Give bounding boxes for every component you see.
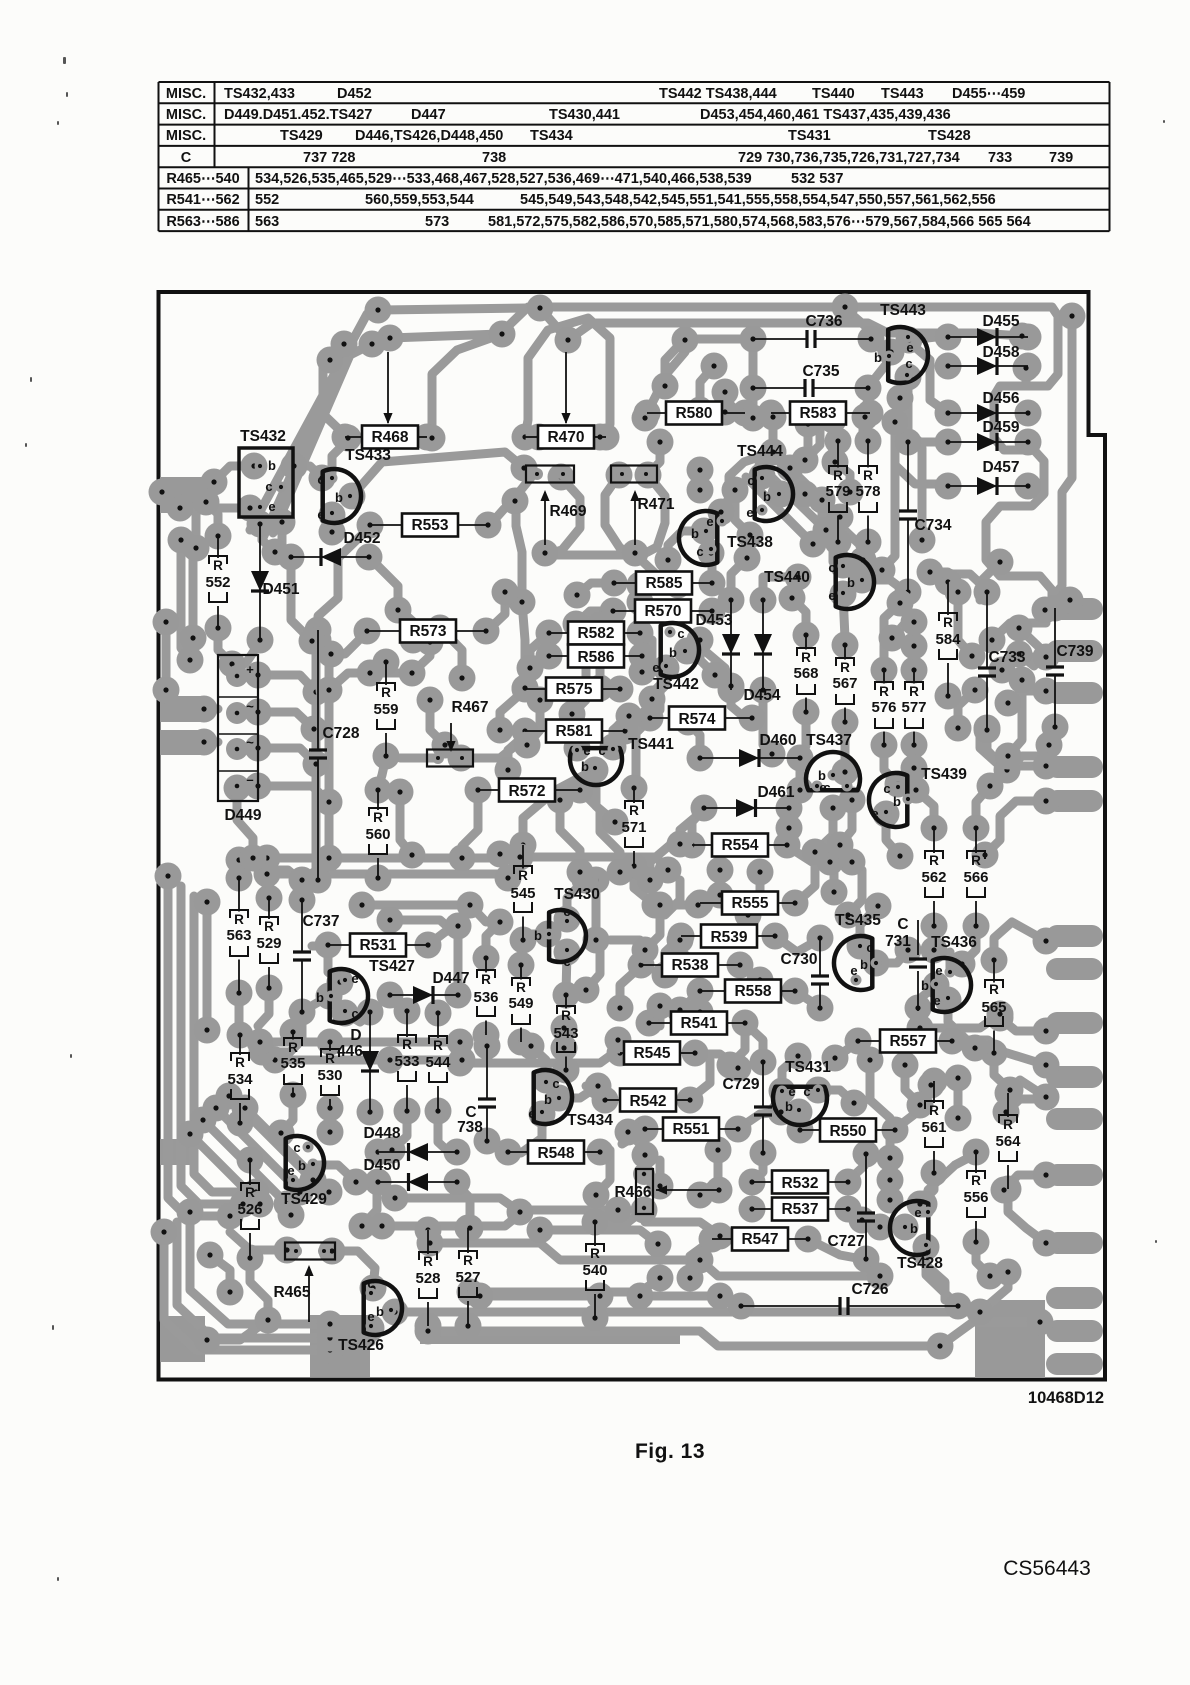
node pad [706,1177,733,1204]
svg-text:b: b [669,645,677,660]
wire [580,790,620,872]
node pad [1033,1162,1060,1189]
resistor R543 [553,995,578,1070]
wire [848,1157,866,1181]
wire [1049,727,1055,745]
svg-text:731: 731 [885,933,911,950]
node pad [995,1080,1022,1107]
node pad [962,1035,989,1062]
resistor R577 [901,670,926,745]
wire [362,1184,377,1226]
wire [687,651,731,686]
node pad [509,589,536,616]
node pad [632,937,659,964]
node pad [592,1087,619,1114]
wire [214,466,254,482]
resistor R537 [752,1198,848,1221]
svg-text:TS429: TS429 [281,1191,327,1208]
node pad [512,424,539,451]
node pad [563,611,590,638]
node pad [1013,355,1040,382]
svg-text:R: R [518,868,528,883]
node pad [180,625,207,652]
node pad [495,757,522,784]
node pad [327,969,354,996]
svg-text:D452: D452 [343,530,380,547]
node pad [601,570,628,597]
node pad [245,699,272,726]
svg-text:TS437: TS437 [806,732,852,749]
node pad [779,585,806,612]
node pad [675,709,702,736]
wire [656,690,665,710]
wire [880,1223,905,1232]
wire [325,660,334,858]
wire [808,1239,862,1259]
wire [795,1112,804,1128]
wire [378,308,526,310]
svg-text:549: 549 [508,995,533,1012]
wire [876,950,908,963]
node pad [977,773,1004,800]
node pad [776,795,803,822]
svg-text:R547: R547 [741,1231,778,1248]
node pad [224,775,251,802]
svg-text:b: b [335,490,343,505]
wire [785,810,794,828]
node pad [572,867,599,894]
svg-text:534,526,535,465,529⋯533,468,46: 534,526,535,465,529⋯533,468,467,528,527,… [255,171,752,187]
node pad [249,1039,276,1066]
node pad [167,495,194,522]
node pad [300,1167,327,1194]
node pad [707,1223,734,1250]
node pad [939,1028,966,1055]
node pad [487,909,514,936]
node pad [1033,928,1060,955]
node pad [274,1191,301,1218]
wire [695,1054,738,1068]
wire [258,712,314,729]
wire [237,788,253,858]
node pad [945,715,972,742]
resistor R545 [620,1042,695,1065]
node pad [652,962,679,989]
copper finger right 3 [1046,682,1103,704]
svg-text:e: e [850,963,857,978]
node pad [892,1052,919,1079]
svg-text:R: R [989,982,999,997]
node pad [331,331,358,358]
node pad [762,923,789,950]
svg-text:564: 564 [995,1133,1021,1150]
node pad [909,527,936,554]
diode D448 [363,1125,457,1161]
node pad [827,504,854,531]
node pad [301,716,328,743]
node pad [168,527,195,554]
node pad [1015,324,1042,351]
node pad [510,832,537,859]
node pad [194,1327,221,1354]
svg-text:R537: R537 [781,1201,818,1218]
node pad [1057,587,1084,614]
node pad [737,522,764,549]
node pad [278,1202,305,1229]
svg-text:R581: R581 [555,723,592,740]
wire [746,477,813,544]
node pad [1033,644,1060,671]
wire [398,610,413,640]
diode 446 [337,1012,379,1112]
wire [721,452,773,512]
wire [250,310,378,530]
node pad [365,777,392,804]
svg-text:e: e [871,806,878,821]
node pad [687,477,714,504]
wire [645,1222,720,1236]
node pad [867,1214,894,1241]
wire [572,620,586,714]
arrow into R468 [387,352,389,423]
wire [345,1013,368,1022]
wire [948,574,987,590]
resistor R586 [549,645,642,668]
wire [748,872,760,915]
node pad [835,902,862,929]
wire [275,1056,390,1065]
transistor TS430 [534,886,600,969]
node pad [750,1140,777,1167]
node pad [607,676,634,703]
svg-text:e: e [317,507,324,522]
wire [920,1175,934,1204]
wire [762,450,771,476]
wire [203,902,212,1030]
copper block left edge mid1 [160,696,204,722]
wire [892,596,908,638]
copper block left small [160,1139,192,1165]
wire [207,1320,268,1340]
capacitor C730 [780,938,829,1008]
node pad [616,703,643,730]
wire [162,622,171,690]
wire [904,377,913,442]
node pad [718,673,745,700]
node pad [1033,1230,1060,1257]
wire [870,1060,890,1158]
node pad [901,609,928,636]
wire [731,558,747,598]
wire [928,1155,974,1210]
node pad [921,937,948,964]
node pad [319,519,346,546]
node pad [677,1087,704,1114]
wire [650,845,692,880]
wire [843,594,845,638]
svg-text:~: ~ [246,699,254,714]
node pad [1033,1052,1060,1079]
node pad [444,1169,471,1196]
svg-text:MISC.: MISC. [166,128,206,144]
svg-text:c: c [866,940,873,955]
wire [873,343,886,352]
node pad [879,625,906,652]
node pad [632,1116,659,1143]
node pad [508,1029,535,1056]
node pad [895,429,922,456]
svg-text:R580: R580 [675,405,712,422]
node pad [1006,615,1033,642]
svg-text:577: 577 [901,699,926,716]
svg-text:b: b [763,489,771,504]
resistor R545 [510,845,535,940]
node pad [991,1177,1018,1204]
svg-text:R: R [971,1173,981,1188]
node pad [518,1033,545,1060]
svg-text:TS428: TS428 [897,1255,943,1272]
node pad [822,449,849,476]
node pad [962,677,989,704]
svg-text:738: 738 [482,150,506,166]
wire [930,926,939,950]
wire [987,730,1046,766]
resistor R558 [700,980,795,1003]
node pad [287,1179,314,1206]
wire [218,630,232,664]
node pad [682,1040,709,1067]
node pad [564,582,591,609]
wire [1004,1175,1046,1190]
node pad [512,676,539,703]
wire [613,716,629,747]
node pad [847,933,874,960]
svg-text:c: c [563,954,570,969]
node pad [278,544,305,571]
svg-text:R: R [373,810,383,825]
node pad [315,932,342,959]
node pad [153,609,180,636]
svg-text:D447: D447 [411,107,446,123]
svg-text:544: 544 [425,1054,451,1071]
node pad [911,1191,938,1218]
node pad [587,1283,614,1310]
svg-text:R: R [213,558,223,573]
node pad [382,1299,409,1326]
node pad [792,481,819,508]
diode D451 [251,524,300,640]
transistor TS426 [338,1276,402,1354]
node pad [687,457,714,484]
resistor R542 [605,1089,690,1112]
node pad [760,404,787,431]
svg-text:C: C [465,1104,476,1121]
svg-text:e: e [563,904,570,919]
wire [430,1243,880,1276]
node pad [995,743,1022,770]
svg-text:C739: C739 [1056,643,1093,660]
node pad [455,1313,482,1340]
node pad [247,1191,274,1218]
node pad [605,1027,632,1054]
resistor R555 [700,892,795,915]
node pad [728,1293,755,1320]
arrow into R470 [565,352,567,423]
node pad [853,1246,880,1273]
wire [332,440,348,476]
wire [527,700,540,745]
svg-text:b: b [268,458,276,473]
node pad [867,1263,894,1290]
wire [312,640,321,880]
wire [522,602,525,688]
wire [520,857,668,868]
wire [369,557,440,628]
node pad [945,1065,972,1092]
copper finger right 6 [1046,925,1103,947]
node pad [607,995,634,1022]
node pad [935,569,962,596]
wire [848,870,862,915]
node pad [369,1213,396,1240]
svg-text:561: 561 [921,1119,946,1136]
node pad [923,972,950,999]
wire [759,465,826,530]
node pad [227,1022,254,1049]
node pad [857,400,884,427]
wire [162,488,168,497]
node pad [935,987,962,1014]
node pad [687,978,714,1005]
node pad [357,1099,384,1126]
node pad [655,547,682,574]
svg-text:e: e [828,588,835,603]
svg-text:R: R [943,615,953,630]
svg-text:R: R [288,1040,298,1055]
arrow R467 [450,723,452,750]
node pad [853,1141,880,1168]
svg-text:TS431: TS431 [788,128,831,144]
wire [268,870,302,899]
node pad [226,847,253,874]
wire [690,1060,710,1099]
svg-text:D: D [350,1027,361,1044]
wire [460,1040,618,1063]
node pad [615,1119,642,1146]
svg-text:D455: D455 [982,313,1019,330]
node pad [712,399,739,426]
node pad [317,1119,344,1146]
node pad [759,741,786,768]
node pad [449,665,476,692]
wire [1008,1080,1046,1097]
node pad [553,982,580,1009]
wire [177,1222,330,1338]
node pad [839,849,866,876]
node pad [417,687,444,714]
svg-text:e: e [287,1163,294,1178]
svg-text:D453: D453 [695,612,732,629]
wire [352,452,524,496]
node pad [727,952,754,979]
svg-text:733: 733 [988,150,1012,166]
node pad [303,751,330,778]
node pad [394,1098,421,1125]
resistor R571 [621,788,646,866]
svg-text:c: c [552,1076,559,1091]
node pad [974,717,1001,744]
wire [328,947,340,982]
wire [508,731,530,770]
node pad [365,1139,392,1166]
resistor R551 [645,1118,738,1141]
svg-text:C734: C734 [914,517,951,534]
svg-text:D452: D452 [337,86,372,102]
node pad [529,1101,556,1128]
node pad [740,405,767,432]
svg-text:c: c [317,472,324,487]
wire [634,868,698,905]
node pad [995,1176,1022,1203]
wire [918,1258,945,1300]
wire [769,418,778,452]
svg-text:C736: C736 [805,313,842,330]
svg-text:535: 535 [280,1055,305,1072]
svg-text:TS430,441: TS430,441 [549,107,620,123]
svg-text:b: b [316,990,324,1005]
resistor R561 [921,1081,946,1173]
node pad [636,1010,663,1037]
svg-text:C728: C728 [322,725,359,742]
svg-text:b: b [893,794,901,809]
wire [323,344,348,438]
svg-text:R471: R471 [637,496,674,513]
node pad [356,544,383,571]
node pad [262,1047,289,1074]
svg-text:D448: D448 [363,1125,400,1142]
svg-text:c: c [905,356,912,371]
svg-text:D451: D451 [262,581,299,598]
svg-text:R554: R554 [721,837,758,854]
node pad [637,867,664,894]
resistor R470 [525,426,606,449]
copper block right bottom corner [975,1300,1045,1378]
node pad [855,529,882,556]
wire [480,1292,600,1301]
resistor R582 [549,622,640,645]
node pad [547,787,574,814]
svg-text:R575: R575 [555,681,592,698]
node pad [974,579,1001,606]
wire [815,808,833,852]
svg-text:D449.D451.452.TS427: D449.D451.452.TS427 [224,107,372,123]
node pad [241,453,268,480]
node pad [289,887,316,914]
wire [216,1108,300,1192]
node pad [622,540,649,567]
resistor R562 [921,828,946,926]
wire [640,640,652,650]
node pad [800,531,827,558]
wire [576,611,613,624]
wire [730,1024,745,1065]
capacitor C731 [885,916,927,1011]
node pad [379,1137,406,1164]
node pad [855,428,882,455]
wire [540,308,568,340]
node pad [269,509,296,536]
resistor R575 [525,678,620,701]
